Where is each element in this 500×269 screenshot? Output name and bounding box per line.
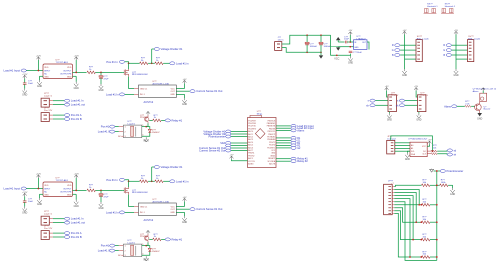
svg-text:Heatsink 1: Heatsink 1 (427, 5, 438, 8)
ground arrow down mid (337, 46, 339, 49)
tag G1 (mcu) (291, 139, 296, 142)
tag Potentiometer (mcu) (226, 135, 231, 138)
tag Pos #1 A (65, 114, 70, 117)
junction output node (100, 72, 102, 74)
tag Current Sense #1 Out (190, 90, 195, 93)
resistor R pullup 1 (431, 150, 437, 152)
capacitor C 10nF (23, 83, 27, 84)
capacitor C 47uF (100, 72, 102, 75)
svg-text:Current Sense #1 Out: Current Sense #1 Out (196, 89, 222, 93)
svg-text:POWER: POWER (140, 117, 149, 119)
svg-text:GND: GND (22, 95, 27, 97)
svg-text:PB7/X2: PB7/X2 (248, 155, 254, 157)
svg-text:ADC0: ADC0 (248, 130, 253, 133)
left pin names (248, 120, 256, 165)
svg-text:GND: GND (402, 75, 407, 77)
svg-text:VDD: VDD (44, 67, 49, 69)
svg-text:MCU: MCU (144, 140, 150, 142)
tag R2 (mcu) (291, 144, 296, 147)
svg-text:VCC: VCC (171, 88, 176, 90)
ground under SV1 (402, 69, 406, 74)
tag disp A (370, 99, 375, 102)
+5V to mcu (230, 156, 234, 159)
regulator U 7805 (354, 40, 368, 50)
svg-text:GND: GND (182, 104, 187, 106)
wire bottom rail (282, 48, 321, 53)
tag Load #1 In (header) (65, 99, 70, 102)
+12V supply at regulator VDD (74, 57, 78, 60)
wire transistor emitter to relay pin5 (142, 123, 148, 126)
svg-text:10uF: 10uF (344, 39, 350, 41)
svg-text:Pos #1 A: Pos #1 A (71, 113, 82, 117)
svg-text:+5V: +5V (348, 30, 352, 32)
svg-text:PD1/TXD: PD1/TXD (248, 126, 256, 128)
wire source down to sensor (129, 77, 134, 89)
svg-text:Pos #1 B: Pos #1 B (71, 117, 82, 121)
connector J1 12V In (275, 42, 282, 51)
sensor GND wire (176, 93, 184, 95)
svg-text:GND: GND (271, 153, 276, 155)
resistor Rdiv1 (140, 62, 148, 65)
svg-text:TC2117-ADJ: TC2117-ADJ (56, 61, 68, 64)
wire top rail (282, 35, 331, 44)
resistor R adj (87, 71, 95, 74)
tag SCL out (447, 149, 452, 152)
resistor R base alarm (465, 105, 471, 107)
svg-text:GND: GND (387, 119, 392, 121)
adc U ADC0832 (410, 142, 427, 156)
svg-text:ADC3: ADC3 (248, 138, 253, 141)
svg-text:ADC6: ADC6 (248, 146, 253, 149)
svg-text:AGND: AGND (248, 163, 254, 166)
svg-text:SCL: SCL (411, 151, 415, 153)
bus junction nodes (436, 184, 438, 186)
svg-text:Mega: Mega (257, 113, 263, 115)
+5V above buzzer (481, 88, 485, 91)
svg-text:OUTPUT: OUTPUT (63, 70, 72, 72)
svg-text:PD4/T0: PD4/T0 (269, 145, 275, 147)
svg-text:+5V: +5V (230, 155, 234, 157)
svg-text:RGL_Lead1: RGL_Lead1 (417, 38, 430, 40)
wires to display header (375, 101, 388, 106)
wires adc to pullups (427, 151, 431, 154)
output wire (73, 71, 87, 73)
+12V decoupling branch (23, 75, 27, 78)
svg-text:A1: A1 (411, 147, 413, 150)
svg-text:VDD: VDD (67, 67, 72, 69)
tag SCL (mcu) (226, 144, 231, 147)
header SV1 (416, 40, 422, 62)
diode D 1N4007 (142, 127, 150, 137)
tag B lead (395, 54, 400, 57)
keypad pin stubs (392, 186, 394, 213)
+5V above SV1 (403, 31, 407, 34)
svg-text:VCC: VCC (422, 146, 427, 148)
svg-text:ADC2: ADC2 (248, 136, 253, 139)
svg-text:PB0/ICP: PB0/ICP (268, 134, 276, 136)
svg-text:Potentiometer: Potentiometer (208, 135, 225, 139)
sensor VCC wire to +5V (176, 88, 184, 90)
svg-text:Pos #1 In: Pos #1 In (106, 60, 118, 64)
ladder bus (436, 185, 438, 260)
ground under display (388, 112, 390, 114)
wire to base resistor (457, 105, 465, 107)
voltage divider wire (129, 62, 140, 64)
ground arrow top (431, 168, 433, 171)
ground under cap (23, 89, 27, 94)
regulator U1 TC2117 (43, 64, 73, 79)
+5V at adc VCC (427, 144, 429, 146)
capacitor C bulk 2 (320, 35, 322, 42)
wire gate (123, 71, 125, 73)
sensor OUT wire (176, 90, 189, 92)
header JP2 (41, 113, 49, 122)
resistor R base (149, 119, 153, 121)
svg-text:GND: GND (450, 194, 455, 196)
wire tag to IC input (27, 70, 44, 72)
svg-text:Load #1 in: Load #1 in (176, 61, 189, 65)
transistor Q relay driver (145, 115, 149, 124)
node wire right group (276, 126, 291, 161)
svg-text:Load #1 In: Load #1 In (106, 92, 119, 96)
svg-text:PD6/AIN0: PD6/AIN0 (267, 138, 275, 141)
current sensor U ACS712 (139, 85, 177, 98)
buzzer element (480, 93, 487, 101)
svg-text:ADC4: ADC4 (248, 141, 253, 144)
svg-text:Load #1 Input: Load #1 Input (4, 69, 21, 73)
wires JP2 to tags (49, 114, 53, 116)
transistor Q1 MOSFET (124, 69, 128, 77)
svg-text:GND: GND (348, 62, 353, 64)
svg-text:Load#1: Load#1 (128, 123, 136, 125)
svg-text:ADC1: ADC1 (248, 133, 253, 136)
svg-text:Relay #1: Relay #1 (172, 118, 183, 122)
tag Potentiometer (ladder) (440, 170, 445, 173)
wires tags to header (400, 45, 416, 59)
svg-text:GND L1: GND L1 (140, 88, 148, 90)
svg-text:GND: GND (44, 76, 49, 78)
top loop wire (391, 136, 433, 151)
header display (388, 95, 396, 112)
svg-text:Buzzer: Buzzer (484, 108, 491, 111)
tag R lead (395, 44, 400, 47)
svg-text:GND: GND (37, 86, 42, 88)
svg-text:Current Sense #2 Out: Current Sense #2 Out (199, 149, 225, 153)
pin stub sensor pin1 (134, 88, 139, 90)
svg-text:10k: 10k (433, 147, 436, 149)
svg-text:LCD part: LCD part (387, 137, 396, 140)
tag Relay #2 (mcu) (291, 160, 296, 163)
ground under C 47uF (99, 84, 103, 89)
svg-text:ACS712ELC-20A: ACS712ELC-20A (153, 82, 170, 85)
svg-text:+5V: +5V (385, 86, 389, 88)
svg-text:PD3/INT1: PD3/INT1 (267, 147, 275, 149)
tag SDA (mcu) (226, 142, 231, 145)
ground under alarm transistor (477, 113, 482, 116)
svg-text:12v In: 12v In (278, 40, 285, 42)
svg-text:SCL/SDA: SCL/SDA (267, 160, 275, 163)
svg-text:+12V: +12V (36, 55, 42, 57)
header JP LCD (387, 140, 395, 154)
svg-text:RFD16N05LSM: RFD16N05LSM (132, 74, 148, 76)
tag Pos #1 B (65, 118, 70, 121)
+5V above regulator (349, 35, 351, 42)
right pin names (267, 120, 276, 165)
svg-text:PB5/SCK: PB5/SCK (268, 120, 276, 122)
svg-text:Load #1 out: Load #1 out (71, 103, 85, 107)
tag Voltage Divider #1 (mcu) (226, 130, 231, 133)
svg-text:+5V: +5V (403, 30, 407, 32)
svg-text:PD2/INT0: PD2/INT0 (248, 128, 256, 130)
svg-text:PD7/AIN1: PD7/AIN1 (267, 136, 275, 139)
bus top wire (436, 171, 438, 185)
keypad fan wires (394, 185, 437, 260)
resistor R pulldown 100k (437, 184, 440, 186)
svg-text:PB6/X1: PB6/X1 (248, 153, 254, 155)
wire regulator gnd pin (331, 46, 338, 48)
resistor ladder R2 (422, 204, 430, 207)
tag SDA out (447, 153, 452, 156)
relay K1 (123, 125, 141, 138)
resistor ladder R5 (422, 256, 430, 259)
svg-text:+5V: +5V (183, 79, 187, 81)
svg-text:PD0/RXD: PD0/RXD (248, 123, 256, 125)
svg-text:L7805CV: L7805CV (357, 38, 367, 40)
svg-text:PC6/RST: PC6/RST (248, 120, 256, 122)
svg-text:Pos 12V: Pos 12V (44, 110, 53, 112)
ground bottom rail (320, 52, 322, 55)
tag Voltage Divider #1 (154, 48, 159, 51)
svg-text:47uF: 47uF (104, 79, 110, 81)
+5V above display (385, 87, 389, 90)
wires header to adc (395, 143, 410, 151)
tag Load #1 Input (mcu) (291, 124, 296, 127)
svg-text:SDA: SDA (220, 142, 225, 145)
ground under regulator right (73, 75, 77, 77)
svg-text:A0: A0 (411, 144, 413, 147)
tag Relay #1 (mcu) (291, 157, 296, 160)
svg-text:10nF: 10nF (28, 83, 34, 85)
+12V supply at IC input (37, 57, 41, 60)
svg-text:R: R (392, 44, 394, 47)
svg-text:Alarm: Alarm (473, 90, 479, 93)
wire divider to tag (151, 49, 153, 63)
op: body (248, 118, 277, 168)
tag Relay #1 (165, 119, 170, 122)
svg-text:G: G (392, 49, 394, 52)
svg-text:Display: Display (391, 95, 399, 97)
svg-text:PB4/MISO: PB4/MISO (267, 123, 276, 125)
pin stub NC (121, 135, 123, 137)
svg-text:Load #1: Load #1 (44, 96, 53, 98)
svg-text:Voltage Divider #1: Voltage Divider #1 (161, 47, 183, 51)
svg-text:Load #1 In: Load #1 In (71, 99, 84, 103)
wire to pot tag (434, 170, 440, 172)
svg-text:GND: GND (405, 159, 410, 161)
svg-text:ACS712: ACS712 (144, 100, 154, 104)
junction node input/+12V (38, 70, 40, 72)
svg-text:10uF: 10uF (357, 52, 363, 54)
svg-text:GND: GND (67, 76, 72, 78)
svg-text:VCC/5V: VCC/5V (248, 161, 255, 163)
node rail junctions (306, 34, 308, 36)
wires JP1 to tags (49, 100, 53, 102)
svg-text:OUTPUT/FB: OUTPUT/FB (60, 73, 72, 75)
svg-text:+12V: +12V (22, 74, 28, 76)
svg-text:PB3/MOSI: PB3/MOSI (267, 126, 276, 128)
ground under regulator left (40, 75, 44, 77)
resistor ladder R1 (422, 184, 430, 187)
wire regulator output (367, 42, 369, 50)
svg-text:PB2/SS: PB2/SS (269, 128, 276, 130)
wire drain to Pos tag (125, 62, 129, 69)
tag disp B (370, 104, 375, 107)
junction divider mid (151, 62, 153, 64)
svg-text:+12V: +12V (74, 55, 80, 57)
wire buzzer to 5V (482, 91, 484, 94)
supply arrow up pair (336, 37, 341, 40)
wires tags to relay (115, 126, 119, 128)
tag Load #1 out (header) (65, 103, 70, 106)
tag Voltage Divider #2 (mcu) (226, 133, 231, 136)
tag Current Sense #2 Out (mcu) (226, 149, 231, 152)
tag Load #1 in (170, 62, 175, 65)
tag R1 (mcu) (291, 136, 296, 139)
svg-text:GND: GND (477, 119, 482, 121)
resistor Rdiv2 (155, 62, 163, 65)
svg-text:1000uF: 1000uF (310, 46, 318, 48)
svg-text:ADC5: ADC5 (248, 144, 253, 147)
tag B1 (mcu) (291, 141, 296, 144)
svg-text:ADC7B: ADC7B (269, 163, 276, 166)
node drain/divider junction (128, 62, 130, 64)
tag G2 (mcu) (291, 146, 296, 149)
ground after 100k (452, 185, 454, 188)
ground under regulator (348, 56, 352, 61)
resistor ladder R3 (422, 221, 430, 224)
header JP keypad (384, 184, 393, 214)
resistor ladder R4 (422, 238, 430, 241)
svg-text:VCC: VCC (334, 57, 339, 60)
capacitor C series in (345, 41, 347, 44)
capacitor C out (350, 54, 352, 56)
svg-text:AVCC: AVCC (248, 157, 254, 160)
tag Alarm (mcu) (291, 129, 296, 132)
capacitor C bulk 1 (306, 35, 308, 42)
svg-text:Relay #2: Relay #2 (297, 159, 308, 163)
svg-text:Potentiometer: Potentiometer (447, 169, 464, 173)
node wire left group A (231, 132, 248, 151)
svg-text:PD5/T1: PD5/T1 (269, 142, 275, 144)
tag Load #2 Input (mcu) (291, 127, 296, 130)
wire to VCC node (331, 35, 351, 55)
svg-text:Alarm: Alarm (444, 104, 452, 108)
svg-text:GND: GND (170, 94, 175, 96)
svg-text:GND2: GND2 (270, 155, 275, 157)
svg-text:PB1/OC1: PB1/OC1 (268, 131, 276, 133)
node staircase junctions (418, 204, 420, 206)
tag Current Sense #1 Out (mcu) (226, 147, 231, 150)
svg-text:Alarm: Alarm (297, 128, 305, 132)
tag G lead (395, 49, 400, 52)
transistor Q alarm (475, 101, 482, 113)
svg-text:ADC7: ADC7 (248, 149, 253, 152)
svg-text:+5V: +5V (428, 140, 432, 142)
wires pullups to tags (437, 150, 447, 154)
diamond mark (255, 129, 265, 139)
wire regulator input (338, 41, 344, 43)
label MCU below relay (144, 137, 148, 142)
ground at adc (407, 151, 410, 153)
svg-text:1N4007: 1N4007 (152, 132, 160, 134)
resistor R pullup 2 (431, 153, 437, 155)
wire vertical supply (404, 34, 406, 69)
svg-text:GND: GND (98, 90, 103, 92)
header JP1 (41, 98, 49, 107)
svg-text:RESET2: RESET2 (268, 158, 275, 160)
svg-text:INPUT: INPUT (44, 70, 51, 72)
VCC arrow above transistor (146, 111, 150, 114)
svg-text:GND: GND (354, 47, 359, 49)
svg-text:U?? ADC0832CCN-T: U?? ADC0832CCN-T (408, 138, 428, 141)
svg-text:GND: GND (74, 88, 79, 90)
